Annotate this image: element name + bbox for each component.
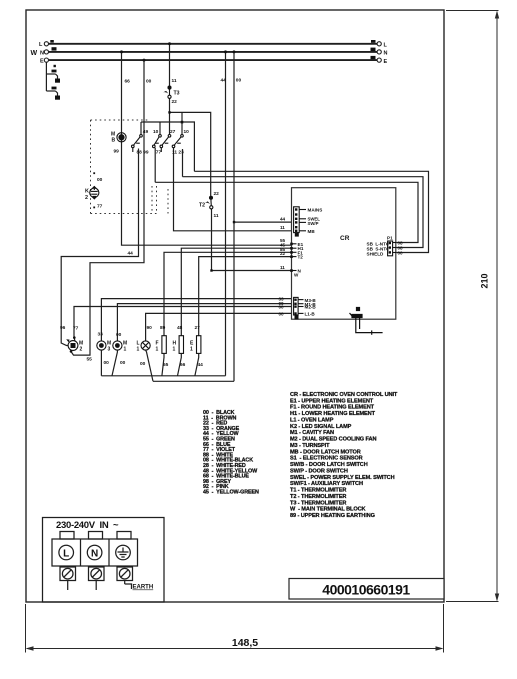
- svg-text:77: 77: [97, 204, 103, 210]
- svg-text:10: 10: [184, 129, 190, 135]
- svg-text:55: 55: [87, 357, 93, 363]
- svg-text:22: 22: [280, 251, 286, 256]
- svg-text:22: 22: [172, 99, 178, 105]
- wire T3 to SWEL top: [169, 99, 171, 135]
- svg-text:L1-B: L1-B: [305, 312, 316, 317]
- node colour code legend: [203, 410, 259, 496]
- svg-text:E: E: [384, 59, 388, 65]
- heating element E1: [197, 336, 201, 354]
- ground stub under CR: [350, 308, 383, 335]
- wire SW/P down (sensor C): [154, 148, 156, 183]
- svg-text:CR - ELECTRONIC OVEN CONTROL U: CR - ELECTRONIC OVEN CONTROL UNIT: [290, 392, 398, 398]
- svg-text:10: 10: [153, 129, 159, 135]
- bus E: [40, 56, 388, 67]
- svg-text:K: K: [85, 189, 89, 195]
- wire 00 vertical from N to CR and bottom bus: [233, 52, 235, 381]
- svg-text:48: 48: [177, 325, 183, 331]
- svg-text:T1 - THERMOLIMITER: T1 - THERMOLIMITER: [290, 488, 346, 494]
- connector P1 (right): [388, 241, 396, 256]
- svg-text:SW/B - DOOR LATCH SWITCH: SW/B - DOOR LATCH SWITCH: [290, 462, 368, 468]
- svg-text:11: 11: [280, 265, 285, 270]
- svg-text:44: 44: [280, 216, 286, 221]
- wire SW/F1 down (sensor B): [182, 149, 184, 177]
- terminal block W (230-240V IN): [43, 518, 165, 603]
- pin stubs middle group: [292, 244, 297, 271]
- screw terminals: [60, 567, 133, 590]
- svg-text:89: 89: [160, 325, 166, 331]
- svg-text:2: 2: [80, 347, 83, 353]
- thermolimiter T2: [205, 196, 213, 211]
- svg-text:MAINS: MAINS: [308, 208, 323, 213]
- wire bottom bus 1: [101, 375, 225, 377]
- svg-text:77: 77: [73, 326, 79, 332]
- svg-text:SW/P - DOOR SWITCH: SW/P - DOOR SWITCH: [290, 468, 348, 474]
- wire F1 bottom drop: [162, 353, 164, 375]
- svg-text:W: W: [31, 50, 38, 57]
- wire L drop to T3: [169, 44, 171, 86]
- wire H1 bottom drop: [178, 353, 182, 375]
- wire CR to L1: [146, 313, 292, 341]
- door latch motor MB: [117, 133, 126, 142]
- lamp K2 LED signal: [90, 186, 99, 200]
- svg-text:44: 44: [128, 251, 134, 257]
- svg-text:SW/F1 - AUXILIARY SWITCH: SW/F1 - AUXILIARY SWITCH: [290, 481, 363, 487]
- connector CN2 (bottom left): [294, 297, 304, 315]
- svg-text:1: 1: [190, 347, 193, 353]
- cooling fan M2: [66, 336, 78, 352]
- node bus taps: [120, 42, 236, 61]
- svg-text:66: 66: [180, 362, 186, 368]
- cavity fan M3 motor circle: [97, 341, 106, 350]
- svg-text:N: N: [91, 549, 98, 560]
- wire SW/F1 bottom to CR pin 11: [174, 148, 296, 231]
- svg-text:N: N: [384, 51, 388, 57]
- wire SW/B to 44: [61, 149, 138, 346]
- wire CR to H1: [181, 248, 291, 336]
- svg-text:44: 44: [221, 78, 227, 84]
- wire M3 bottom drop: [100, 350, 102, 376]
- wire branch to T2: [170, 112, 211, 195]
- svg-text:M2 - DUAL SPEED COOLING FAN: M2 - DUAL SPEED COOLING FAN: [290, 437, 376, 443]
- switch SW/F1: [172, 112, 183, 147]
- svg-text:2: 2: [85, 195, 88, 201]
- svg-text:96: 96: [60, 325, 66, 331]
- turnspit M1 motor circle: [113, 341, 122, 350]
- wire L1 bottom drop: [146, 350, 153, 381]
- dimension 148,5 (bottom horizontal): [26, 604, 444, 653]
- wire T2 down + branch to CR: [211, 210, 213, 271]
- svg-text:11: 11: [172, 78, 177, 84]
- svg-text:00: 00: [116, 332, 122, 338]
- wire CR to M1: [117, 304, 291, 341]
- svg-text:F1 - ROUND HEATING ELEMENT: F1 - ROUND HEATING ELEMENT: [290, 405, 375, 411]
- svg-text:T3: T3: [174, 91, 180, 97]
- wire M1 bottom drop: [112, 350, 117, 376]
- svg-text:99: 99: [114, 149, 120, 155]
- dimension 210 (right vertical): [446, 11, 499, 602]
- op CR electronic oven control unit: [292, 188, 396, 320]
- wire CR to F1: [164, 252, 292, 335]
- heating element H1: [179, 336, 183, 354]
- bus N: [31, 47, 388, 57]
- wire CR to E1: [199, 257, 292, 336]
- wire E1 bottom drop: [195, 353, 199, 375]
- node abbreviation legend: [290, 392, 398, 519]
- svg-text:K2 - LED SIGNAL LAMP: K2 - LED SIGNAL LAMP: [290, 424, 352, 430]
- svg-text:27: 27: [195, 325, 201, 331]
- wire bottom bus 2: [153, 380, 234, 382]
- svg-text:00: 00: [398, 251, 404, 256]
- switch SWEL: [160, 135, 171, 153]
- svg-text:11: 11: [214, 213, 219, 219]
- svg-text:00: 00: [236, 78, 242, 84]
- svg-text:00: 00: [140, 361, 146, 367]
- svg-text:00: 00: [146, 79, 152, 85]
- bus L: [39, 40, 388, 49]
- svg-text:T2 - THERMOLIMITER: T2 - THERMOLIMITER: [290, 494, 346, 500]
- svg-text:49: 49: [143, 129, 149, 135]
- wire CR to M3: [101, 299, 291, 341]
- svg-text:CR: CR: [340, 235, 350, 242]
- svg-text:S1 - ELECTRONIC SENSOR: S1 - ELECTRONIC SENSOR: [290, 456, 363, 462]
- svg-text:1: 1: [156, 347, 159, 353]
- svg-text:90: 90: [147, 325, 153, 331]
- svg-text:148,5: 148,5: [232, 637, 258, 649]
- wire 44 vertical from N: [225, 52, 227, 376]
- svg-text:P1: P1: [387, 236, 393, 241]
- svg-text:00: 00: [120, 360, 126, 366]
- svg-text:L1 - OVEN LAMP: L1 - OVEN LAMP: [290, 418, 334, 424]
- svg-text:27: 27: [170, 129, 176, 135]
- svg-text:MB - DOOR LATCH MOTOR: MB - DOOR LATCH MOTOR: [290, 449, 361, 455]
- switch SW/B: [132, 122, 143, 152]
- switch SW/P: [153, 122, 162, 148]
- svg-text:B: B: [112, 138, 116, 144]
- svg-text:89 - UPPER HEATING EARTHING: 89 - UPPER HEATING EARTHING: [290, 513, 375, 519]
- svg-text:SWEL - POWER SUPPLY ELEM. SWIT: SWEL - POWER SUPPLY ELEM. SWITCH: [290, 475, 395, 481]
- svg-text:33: 33: [98, 332, 104, 338]
- svg-text:M2-B: M2-B: [305, 305, 317, 310]
- svg-text:66: 66: [125, 79, 131, 85]
- svg-text:SW/P: SW/P: [308, 221, 319, 226]
- switch cluster top bus: [141, 122, 194, 171]
- sensor wire A: [194, 171, 428, 252]
- svg-text:44: 44: [198, 362, 204, 368]
- svg-text:1: 1: [137, 347, 140, 353]
- svg-text:EARTH: EARTH: [133, 585, 154, 591]
- svg-text:00: 00: [279, 304, 285, 309]
- svg-text:400010660191: 400010660191: [322, 582, 410, 598]
- earth symbol in terminal: [118, 548, 129, 558]
- svg-text:00: 00: [279, 311, 285, 316]
- svg-text:1: 1: [173, 347, 176, 353]
- ground stub 2: [55, 96, 60, 100]
- oven lamp L1: [141, 341, 150, 350]
- svg-text:00: 00: [97, 177, 103, 183]
- svg-text:1: 1: [124, 347, 127, 353]
- svg-text:N: N: [40, 50, 44, 56]
- svg-text:E: E: [40, 59, 44, 65]
- svg-text:00: 00: [104, 360, 110, 366]
- wire CR to M2: [74, 307, 292, 342]
- svg-text:3: 3: [108, 347, 111, 353]
- svg-text:M3 - TURNSPIT: M3 - TURNSPIT: [290, 443, 330, 449]
- dashed enclosure: [91, 120, 169, 214]
- svg-text:T2: T2: [199, 203, 205, 209]
- sensor wire B: [183, 177, 424, 248]
- svg-text:11: 11: [280, 225, 285, 230]
- svg-text:210: 210: [480, 273, 490, 288]
- svg-text:W - MAIN TERMINAL BLOCK: W - MAIN TERMINAL BLOCK: [290, 507, 366, 513]
- ground stub 1: [55, 79, 60, 83]
- svg-text:E1 - UPPER HEATING ELEMENT: E1 - UPPER HEATING ELEMENT: [290, 398, 374, 404]
- svg-text:H1 - LOWER HEATING ELEMENT: H1 - LOWER HEATING ELEMENT: [290, 411, 376, 417]
- earth branch left: [46, 62, 57, 96]
- svg-text:45 - YELLOW-GREEN: 45 - YELLOW-GREEN: [203, 490, 259, 496]
- svg-text:230-240V IN ~: 230-240V IN ~: [56, 520, 119, 531]
- sensor wire C: [155, 182, 418, 242]
- svg-text:SHIELD: SHIELD: [367, 251, 385, 256]
- svg-text:M1 - CAVITY FAN: M1 - CAVITY FAN: [290, 430, 334, 436]
- svg-text:W: W: [294, 273, 299, 278]
- svg-text:T3 - THERMOLIMITER: T3 - THERMOLIMITER: [290, 500, 346, 506]
- svg-text:L: L: [63, 549, 69, 560]
- svg-text:77: 77: [156, 150, 162, 156]
- connector CN1 (top left): [294, 207, 306, 233]
- wire MB drop from N: [122, 52, 292, 245]
- thermolimiter T3: [163, 86, 171, 99]
- svg-text:22: 22: [214, 191, 220, 197]
- svg-text:MB: MB: [308, 229, 316, 234]
- wire E drop 00 to M2 bottom: [71, 60, 144, 355]
- part number box 400010660191: [289, 579, 444, 600]
- svg-text:T2: T2: [298, 255, 304, 260]
- heating element F1: [162, 336, 166, 354]
